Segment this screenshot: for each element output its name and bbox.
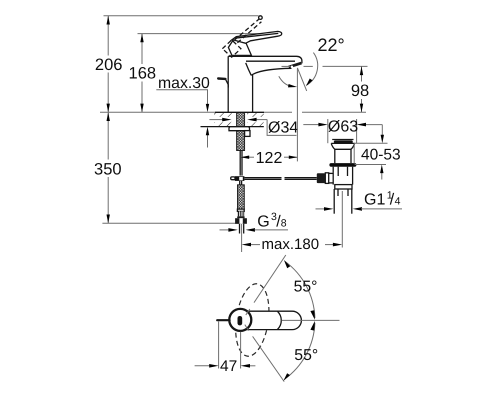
- svg-text:55°: 55°: [294, 347, 318, 364]
- wire: 98 top reference line: [323, 65, 368, 67]
- label Ø34 callout box: [267, 120, 296, 136]
- dimension max.180 line: [242, 243, 343, 247]
- svg-text:max.180: max.180: [262, 236, 320, 253]
- dimension G 1 1/4 arrows: [316, 207, 403, 211]
- upper arc: [285, 261, 315, 318]
- wire: deck top line: [100, 111, 215, 113]
- svg-text:122: 122: [256, 150, 283, 167]
- lower arc: [284, 323, 315, 380]
- top view: spout stub: [217, 319, 229, 321]
- wire: drain centerline: [341, 191, 343, 248]
- arc left with arrow to water line: [279, 76, 291, 86]
- wire: 350 bottom reference line: [102, 222, 239, 224]
- dimension 47: [195, 322, 256, 369]
- pop-up rod cross fitting: [231, 176, 245, 181]
- wire: dashed outlet axis: [282, 65, 291, 67]
- svg-text:40-53: 40-53: [361, 147, 401, 164]
- lever handle (solid, rest position): [232, 31, 282, 43]
- svg-text:206: 206: [95, 56, 123, 74]
- drain collar: [335, 185, 352, 189]
- svg-text:168: 168: [129, 65, 157, 83]
- top view: swivel ellipse (dashed): [231, 282, 273, 359]
- rod stub below fitting: [240, 181, 242, 185]
- 55 degree swing annotation: [245, 255, 315, 382]
- node: raised lever tip knob circle: [259, 16, 263, 20]
- wire: second reference line (168): [138, 33, 277, 35]
- drain flange: [331, 143, 354, 149]
- counter deck hatching: [209, 113, 264, 126]
- leader max.30 up arrow under deck: [206, 127, 209, 148]
- dimension 98 vertical line: [360, 66, 363, 112]
- dimension 350 vertical line: [107, 112, 110, 223]
- mounting washer under deck: [229, 127, 250, 131]
- dimension 206 vertical line: [107, 16, 110, 113]
- label G 3/8: [257, 211, 287, 231]
- label G 1 1/4: [364, 189, 401, 208]
- svg-text:47: 47: [220, 358, 237, 375]
- svg-text:55°: 55°: [294, 279, 318, 296]
- top view: faucet base circle: [229, 309, 251, 331]
- pop-up pull rod (vertical): [240, 150, 242, 175]
- wire: vertical water line: [296, 69, 298, 162]
- faucet body (side view): [228, 56, 302, 112]
- svg-text:Ø63: Ø63: [328, 118, 358, 135]
- arc right of 22 deg: [306, 53, 317, 86]
- faucet threaded shank through deck: [237, 113, 245, 151]
- svg-text:max.30: max.30: [158, 75, 210, 92]
- svg-text:G1: G1: [364, 191, 385, 208]
- drain body: [333, 167, 352, 185]
- dimension 40-53: [354, 125, 388, 180]
- wire: lower diagonal: [253, 336, 285, 381]
- spout outlet aerator: [288, 62, 302, 69]
- drain rod knob (knurled): [317, 173, 326, 183]
- drain rubber gasket: [329, 163, 356, 167]
- svg-text:Ø34: Ø34: [268, 120, 298, 137]
- pop-up rod hook on body left: [218, 79, 228, 88]
- drain neck: [335, 149, 351, 163]
- lever base (cartridge cover): [228, 40, 251, 56]
- wire: 98 bottom reference line: [302, 111, 366, 113]
- top view: pivot slot: [238, 316, 243, 325]
- G 3/8 hose end fitting: [235, 209, 247, 224]
- lever raised position (dashed): [222, 19, 261, 57]
- top view: lever pill: [243, 311, 301, 329]
- svg-text:22°: 22°: [318, 35, 345, 55]
- svg-text:G: G: [257, 213, 269, 230]
- clamp block right of shank: [245, 131, 250, 137]
- dimension Ø63: [303, 119, 382, 143]
- svg-text:98: 98: [351, 82, 369, 100]
- dimension arrows for mounting hole (Ø34): [209, 118, 267, 122]
- dimension 168 vertical line: [140, 34, 143, 113]
- hose tails below fitting: [240, 224, 244, 252]
- flexible braided hose: [238, 185, 245, 209]
- 22 degree angle annotation: [279, 53, 318, 162]
- wire: top view centerline: [282, 319, 340, 321]
- svg-text:350: 350: [94, 160, 122, 178]
- leader max.30 underline and down arrow: [156, 90, 209, 113]
- wire: top reference line (206): [104, 15, 259, 17]
- wire: slanted 22 degree line: [297, 68, 306, 91]
- svg-text:8: 8: [281, 217, 287, 229]
- dimension 122: [241, 156, 298, 159]
- svg-text:4: 4: [395, 195, 401, 207]
- G 3/8 bracket arrows: [220, 228, 289, 232]
- drain side port: [325, 173, 333, 184]
- wire: deck bottom line: [201, 126, 264, 128]
- drain tailpiece tube: [334, 189, 352, 214]
- wire: horizontal pop-up rod to drain: [244, 178, 316, 180]
- wire: upper diagonal: [254, 255, 286, 303]
- drain plug top: [332, 140, 353, 144]
